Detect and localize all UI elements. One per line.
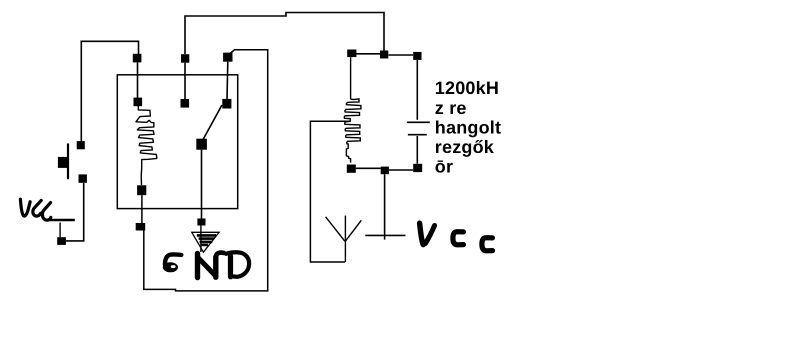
wire LC top rail — [356, 54, 413, 55]
capacitor C2 plates — [407, 122, 430, 134]
node N6 — [223, 53, 232, 62]
label GND (handwritten) — [163, 252, 249, 277]
node ND switch pole — [196, 139, 207, 150]
node L top of coil L2 — [347, 50, 356, 58]
wire pin N5 to NB — [184, 63, 186, 100]
wire button bottom to VCC node — [66, 183, 84, 241]
capacitor C2 bottom lead — [416, 136, 418, 164]
pushbutton S1 cap — [58, 157, 68, 168]
node NC switch throw — [222, 99, 231, 109]
wire VCC stub — [59, 223, 61, 238]
label VCC (handwritten big) — [420, 223, 493, 251]
wire top-left hook — [81, 41, 138, 146]
svg-text:1200kH: 1200kH — [435, 78, 499, 98]
svg-text:rezgők: rezgők — [435, 137, 495, 157]
node BR — [413, 164, 422, 172]
node NE ground tap — [197, 219, 205, 226]
ground symbol — [192, 226, 219, 253]
wire antenna junction crossbar — [365, 234, 405, 236]
switch arm NC to ND — [203, 105, 223, 141]
node N3 pushbutton bottom contact — [79, 174, 87, 182]
capacitor C2 top lead — [416, 60, 418, 120]
node N4 VCC tap — [57, 237, 66, 245]
label VCC (handwritten small) — [20, 199, 50, 220]
antenna — [326, 216, 362, 262]
inductor L2 stem top — [344, 57, 361, 162]
wire coil tap to antenna drop — [310, 121, 350, 262]
wire VCC underline — [50, 219, 75, 222]
wire ND down to ground node — [201, 150, 203, 219]
svg-text:ōr: ōr — [435, 156, 453, 176]
node NG coil bottom — [137, 185, 146, 195]
wire LC bottom rail — [356, 168, 413, 170]
node NB — [181, 99, 190, 108]
label tuned circuit text — [435, 78, 501, 176]
wire NG to NH through box edge — [141, 195, 143, 223]
inductor L1 (relay coil) — [136, 105, 157, 185]
wire BM down to antenna junction — [384, 174, 386, 239]
pushbutton S1 bar — [67, 143, 69, 179]
node BM — [381, 167, 389, 175]
node M top mid — [380, 51, 388, 59]
svg-text:z re: z re — [435, 98, 467, 118]
node N2 — [133, 54, 142, 63]
wire pin N6 to NC — [226, 62, 229, 99]
node N1 pushbutton top contact — [77, 141, 85, 149]
node N5 — [181, 54, 189, 63]
wire N6 hook right and down around to bottom — [144, 50, 268, 291]
node NA coil top — [134, 98, 143, 107]
wire pin N2 to NA — [137, 62, 139, 98]
node R top of capacitor — [413, 52, 421, 60]
node BL — [347, 165, 356, 173]
node NH — [136, 223, 146, 231]
relay box U1 — [117, 75, 237, 209]
wire top long run N5 to node M — [185, 13, 384, 55]
svg-text:hangolt: hangolt — [435, 118, 501, 138]
